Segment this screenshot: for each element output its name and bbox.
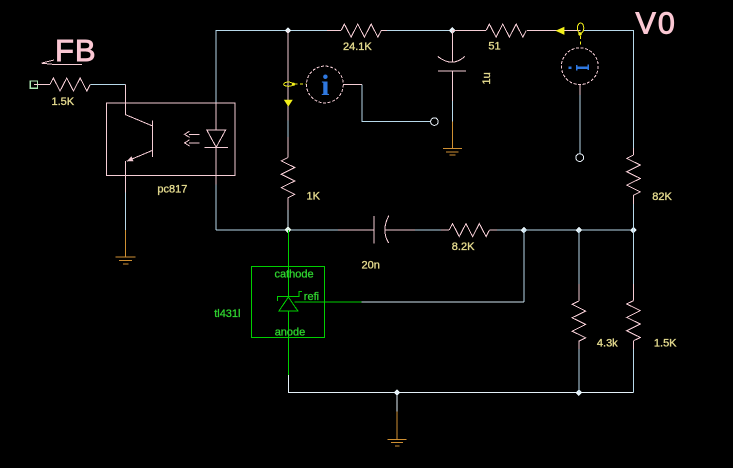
current probe dashed leader [295, 83, 307, 85]
wire bottom ground stub [396, 393, 398, 412]
node C (x=288 y=230) [285, 226, 292, 233]
tl431 cathode bar [277, 291, 302, 301]
svg-text:51: 51 [488, 40, 500, 52]
ammeter U i circle [307, 66, 344, 103]
wire voltmeter lower lead [579, 85, 581, 95]
svg-text:i: i [321, 69, 329, 102]
voltmeter U V0 circle [561, 48, 598, 85]
node G (ground junction) [394, 389, 401, 396]
ground (pc817 emitter) [116, 230, 136, 264]
svg-text:20n: 20n [362, 259, 380, 271]
wire top rail between 24.1K and node [387, 30, 452, 32]
node B (top, x=452) [449, 27, 456, 34]
resistor R 1K [287, 151, 289, 158]
shunt regulator U tl431 box [251, 267, 324, 338]
wire 8.2K to node [497, 229, 524, 231]
capacitor C 1u [451, 31, 453, 62]
node E (x=578.9) [576, 227, 583, 234]
node H (4.3k bottom) [576, 389, 583, 396]
wire rail y=230 left [216, 229, 288, 231]
svg-text:1K: 1K [307, 191, 321, 203]
pc817 LED arrows [185, 131, 200, 137]
resistor R 1.5K (output divider) [627, 301, 641, 341]
svg-text:1.5K: 1.5K [52, 96, 75, 108]
resistor R 4.3k [572, 301, 586, 341]
ground (under 1u) [443, 122, 462, 156]
pin pc817 cathode stub [215, 176, 217, 185]
resistor R 8.2K [449, 224, 489, 237]
svg-text:pc817: pc817 [157, 184, 187, 196]
wire rail nodes to right [524, 229, 634, 231]
wire 82K to node [633, 204, 635, 230]
svg-text:4.3k: 4.3k [597, 338, 618, 350]
svg-text:cathode: cathode [275, 269, 314, 281]
svg-text:anode: anode [275, 326, 306, 338]
wire pc817 cathode down [215, 185, 217, 230]
wire mid branch lower (pink) [287, 137, 289, 151]
svg-text:refi: refi [304, 291, 319, 303]
wire 4.3k upper [578, 230, 580, 284]
svg-text:82K: 82K [652, 191, 672, 203]
resistor R 51 [452, 30, 486, 32]
svg-text:tl431l: tl431l [214, 308, 240, 320]
svg-text:1u: 1u [481, 72, 493, 84]
pc817 phototransistor [126, 103, 153, 126]
wire rail y=230 (node to 20n) [288, 229, 338, 231]
wire anode to bottom rail [288, 375, 633, 393]
tl431 cathode wire [287, 230, 289, 296]
wire 20n to 8.2K [415, 229, 441, 231]
wire top rail right segment and V0 right rail [584, 31, 634, 148]
wire FB resistor to pc817 [91, 84, 126, 86]
pin pc817 emitter stub [125, 176, 127, 193]
node D (x=523.9) [521, 227, 528, 234]
wire ammeter output [343, 83, 362, 85]
optocoupler U pc817 box [106, 103, 235, 176]
wire 4.3k lower [578, 349, 580, 393]
tl431 triangle [279, 297, 298, 311]
svg-text:24.1K: 24.1K [343, 41, 372, 53]
wire FB terminal lead [34, 84, 50, 86]
wire refi green segment [294, 301, 361, 303]
current probe direction arrow [284, 100, 293, 107]
svg-text:8.2K: 8.2K [452, 241, 475, 253]
wire top rail left segment [216, 31, 327, 103]
ground (bottom) [388, 412, 407, 446]
wire mid branch (cyan) [287, 121, 289, 138]
wire into pc817 collector [125, 85, 127, 104]
voltmeter icon [569, 65, 589, 71]
node F (x=633.5) [630, 227, 637, 234]
svg-text:V0: V0 [636, 7, 677, 41]
voltage probe dashed leader [580, 36, 582, 47]
current probe ellipse [284, 82, 293, 86]
resistor R 1.5K (FB input) [50, 78, 90, 91]
voltage probe ellipse [577, 23, 583, 33]
node A (top, x=288) [285, 27, 292, 34]
capacitor C 20n [373, 216, 375, 244]
resistor R 82K [633, 148, 635, 155]
wire 1K to node [287, 210, 289, 230]
wire refi horizontal [362, 301, 524, 303]
wire 1.5K lower [633, 349, 635, 393]
tl431 anode wire [287, 311, 289, 375]
wire pc817 emitter to ground [125, 192, 127, 230]
svg-text:FB: FB [55, 33, 97, 68]
svg-text:1.5K: 1.5K [654, 338, 677, 350]
wire mid branch upper (pink) [287, 31, 289, 121]
terminal open circle (ammeter) [431, 118, 439, 126]
terminal square FB [30, 81, 37, 88]
voltage probe arrow [556, 27, 565, 35]
resistor R 24.1K [327, 30, 341, 32]
terminal open circle (voltmeter) [576, 154, 584, 162]
wire 1.5K upper [633, 230, 635, 284]
wire refi vertical [523, 230, 525, 302]
wire 20n left lead [338, 229, 374, 231]
wire 1u to ground [451, 101, 453, 122]
FB leader arrow [42, 60, 83, 64]
pc817 LED [215, 103, 217, 130]
